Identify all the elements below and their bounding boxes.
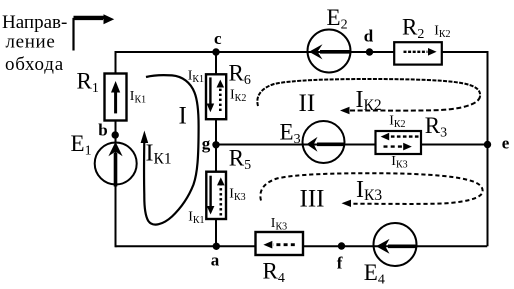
wire: bottom (a row): [116, 245, 488, 247]
svg-text:d: d: [364, 26, 374, 45]
EMF source E3: [303, 121, 345, 163]
svg-text:f: f: [337, 253, 343, 272]
direction-of-traversal text (Направление обхода): [2, 12, 67, 75]
node f: [338, 242, 345, 249]
wire: middle (g-e row): [216, 144, 488, 146]
svg-text:E3: E3: [280, 120, 301, 148]
loop II arrow (dashed): [257, 79, 480, 114]
wire: middle column (c-g-a): [215, 52, 217, 246]
direction-of-traversal arrow: [74, 14, 115, 50]
svg-text:I: I: [179, 103, 187, 130]
svg-text:III: III: [300, 186, 325, 213]
svg-text:b: b: [98, 120, 107, 139]
loop III arrow (dashed): [260, 173, 482, 207]
node c: [212, 48, 219, 55]
resistor R2: [394, 42, 442, 64]
svg-text:IК1: IК1: [188, 210, 204, 227]
svg-text:e: e: [502, 134, 510, 153]
svg-text:a: a: [211, 250, 220, 269]
EMF source E1: [95, 142, 137, 187]
svg-text:R6: R6: [229, 61, 251, 89]
resistor R5: [206, 172, 226, 219]
EMF source E2: [308, 30, 351, 73]
svg-text:IК1: IК1: [130, 89, 146, 106]
wire: top (c row): [116, 51, 488, 53]
svg-text:IК2: IК2: [389, 114, 405, 131]
node d: [366, 48, 373, 55]
svg-text:R5: R5: [229, 146, 251, 174]
svg-text:R4: R4: [263, 259, 285, 287]
wire: left column: [115, 51, 117, 247]
resistor R3: [376, 131, 422, 154]
svg-text:E4: E4: [364, 260, 385, 288]
node b: [112, 131, 119, 138]
resistor R1: [105, 74, 127, 121]
node a: [213, 243, 220, 250]
svg-text:IК1: IК1: [146, 141, 172, 168]
svg-text:R1: R1: [77, 69, 99, 97]
svg-text:IК2: IК2: [356, 87, 382, 114]
svg-text:IК3: IК3: [391, 154, 407, 171]
svg-text:E1: E1: [71, 131, 92, 159]
wire: right column: [487, 51, 489, 246]
svg-text:IК1: IК1: [188, 69, 204, 86]
svg-text:IК3: IК3: [356, 177, 382, 204]
svg-text:IК3: IК3: [271, 216, 287, 233]
svg-text:IК3: IК3: [229, 186, 245, 203]
resistor R4: [256, 232, 304, 255]
loop I arrow (solid): [141, 75, 199, 224]
svg-text:Направ-: Направ-: [2, 12, 67, 33]
node g: [212, 141, 219, 148]
svg-text:E2: E2: [327, 5, 348, 33]
svg-text:II: II: [299, 90, 316, 117]
svg-text:R2: R2: [402, 14, 424, 42]
svg-text:IК2: IК2: [434, 24, 450, 41]
EMF source E4: [374, 223, 417, 266]
node e: [484, 141, 491, 148]
svg-text:обхода: обхода: [5, 54, 64, 75]
svg-text:ление: ление: [6, 32, 56, 53]
svg-text:R3: R3: [425, 113, 447, 141]
svg-text:IК2: IК2: [230, 88, 246, 105]
resistor R6: [206, 74, 226, 119]
svg-text:c: c: [214, 29, 222, 48]
svg-text:g: g: [202, 134, 211, 153]
